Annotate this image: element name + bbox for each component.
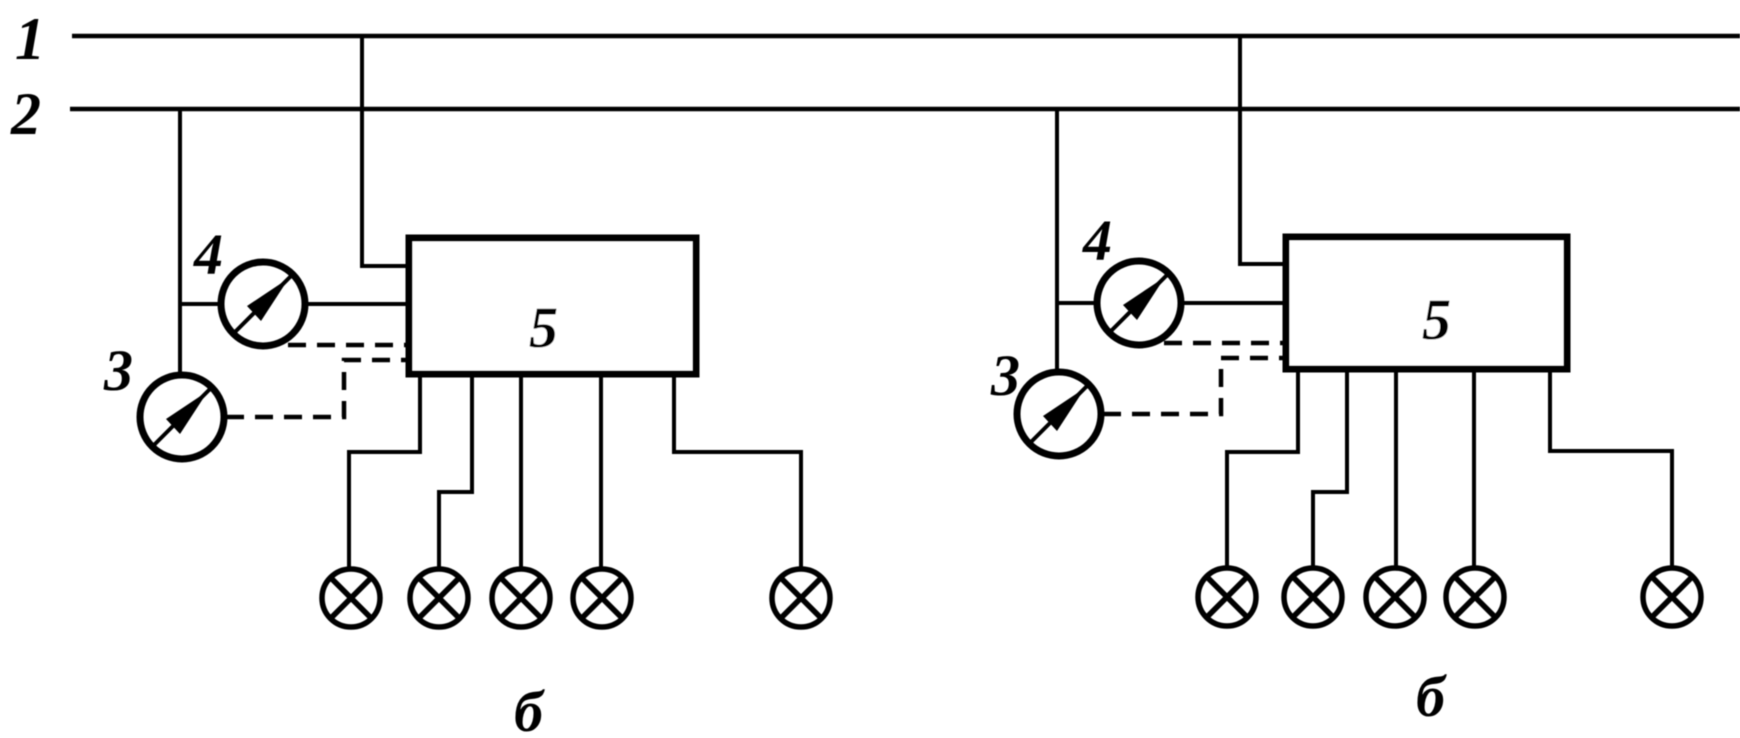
svg-text:5: 5 xyxy=(529,295,558,360)
wire branch to meter 4 (left) xyxy=(180,302,220,306)
meter 3 (right) xyxy=(1017,372,1101,456)
wire box 5 to lamp 2 (left) xyxy=(439,377,472,568)
svg-text:5: 5 xyxy=(1422,287,1451,352)
dashed wire meter 4 to box 5 (right) xyxy=(1164,341,1283,346)
wire from bus 1 down to box 5 (right) xyxy=(1240,36,1283,264)
wire from bus 2 down to meter 3 (right) xyxy=(1055,108,1059,371)
lamp 5 (left) xyxy=(772,569,830,627)
lamp 3 (right) xyxy=(1366,568,1424,626)
svg-text:4: 4 xyxy=(193,222,223,287)
wire meter 4 to box 5 (right) xyxy=(1182,301,1283,305)
lamp 2 (right) xyxy=(1284,568,1342,626)
bus line 1 xyxy=(72,34,1740,39)
wire box 5 to lamp 3 (left) xyxy=(519,377,523,568)
wire box 5 to lamp 3 (right) xyxy=(1394,372,1398,567)
wire box 5 to lamp 5 (right) xyxy=(1550,372,1672,567)
lamp 1 (left) xyxy=(322,569,380,627)
svg-text:б: б xyxy=(1416,664,1447,729)
meter 3 (left) xyxy=(140,375,224,459)
dashed wire meter 3 to box 5 (left) xyxy=(226,360,406,417)
wire branch to meter 4 (right) xyxy=(1057,301,1096,305)
svg-text:б: б xyxy=(514,679,545,738)
wire box 5 to lamp 1 (left) xyxy=(349,377,420,568)
svg-text:3: 3 xyxy=(103,338,133,403)
lamp 5 (right) xyxy=(1643,568,1701,626)
wire from bus 1 down to box 5 (left) xyxy=(362,36,406,266)
box 5 (left) xyxy=(409,238,696,374)
lamp 4 (left) xyxy=(573,569,631,627)
wire box 5 to lamp 2 (right) xyxy=(1313,372,1347,567)
wire from bus 2 down to meter 3 (left) xyxy=(178,108,182,374)
wire box 5 to lamp 4 (left) xyxy=(599,377,603,568)
box 5 (right) xyxy=(1286,237,1567,369)
lamp 1 (right) xyxy=(1198,568,1256,626)
meter 4 (left) xyxy=(221,262,305,346)
bus line 2 xyxy=(70,107,1740,112)
dashed wire meter 4 to box 5 (left) xyxy=(288,343,406,348)
lamp 2 (left) xyxy=(410,569,468,627)
meter 4 (right) xyxy=(1097,261,1181,345)
wire box 5 to lamp 4 (right) xyxy=(1472,372,1476,567)
svg-text:1: 1 xyxy=(15,6,45,72)
lamp 4 (right) xyxy=(1446,568,1504,626)
lamp 3 (left) xyxy=(492,569,550,627)
wire box 5 to lamp 5 (left) xyxy=(674,377,801,568)
svg-text:3: 3 xyxy=(990,343,1020,408)
wire meter 4 to box 5 (left) xyxy=(306,302,406,306)
svg-text:4: 4 xyxy=(1082,208,1112,273)
wire box 5 to lamp 1 (right) xyxy=(1227,372,1298,567)
dashed wire meter 3 to box 5 (right) xyxy=(1103,358,1283,414)
svg-text:2: 2 xyxy=(10,81,41,147)
